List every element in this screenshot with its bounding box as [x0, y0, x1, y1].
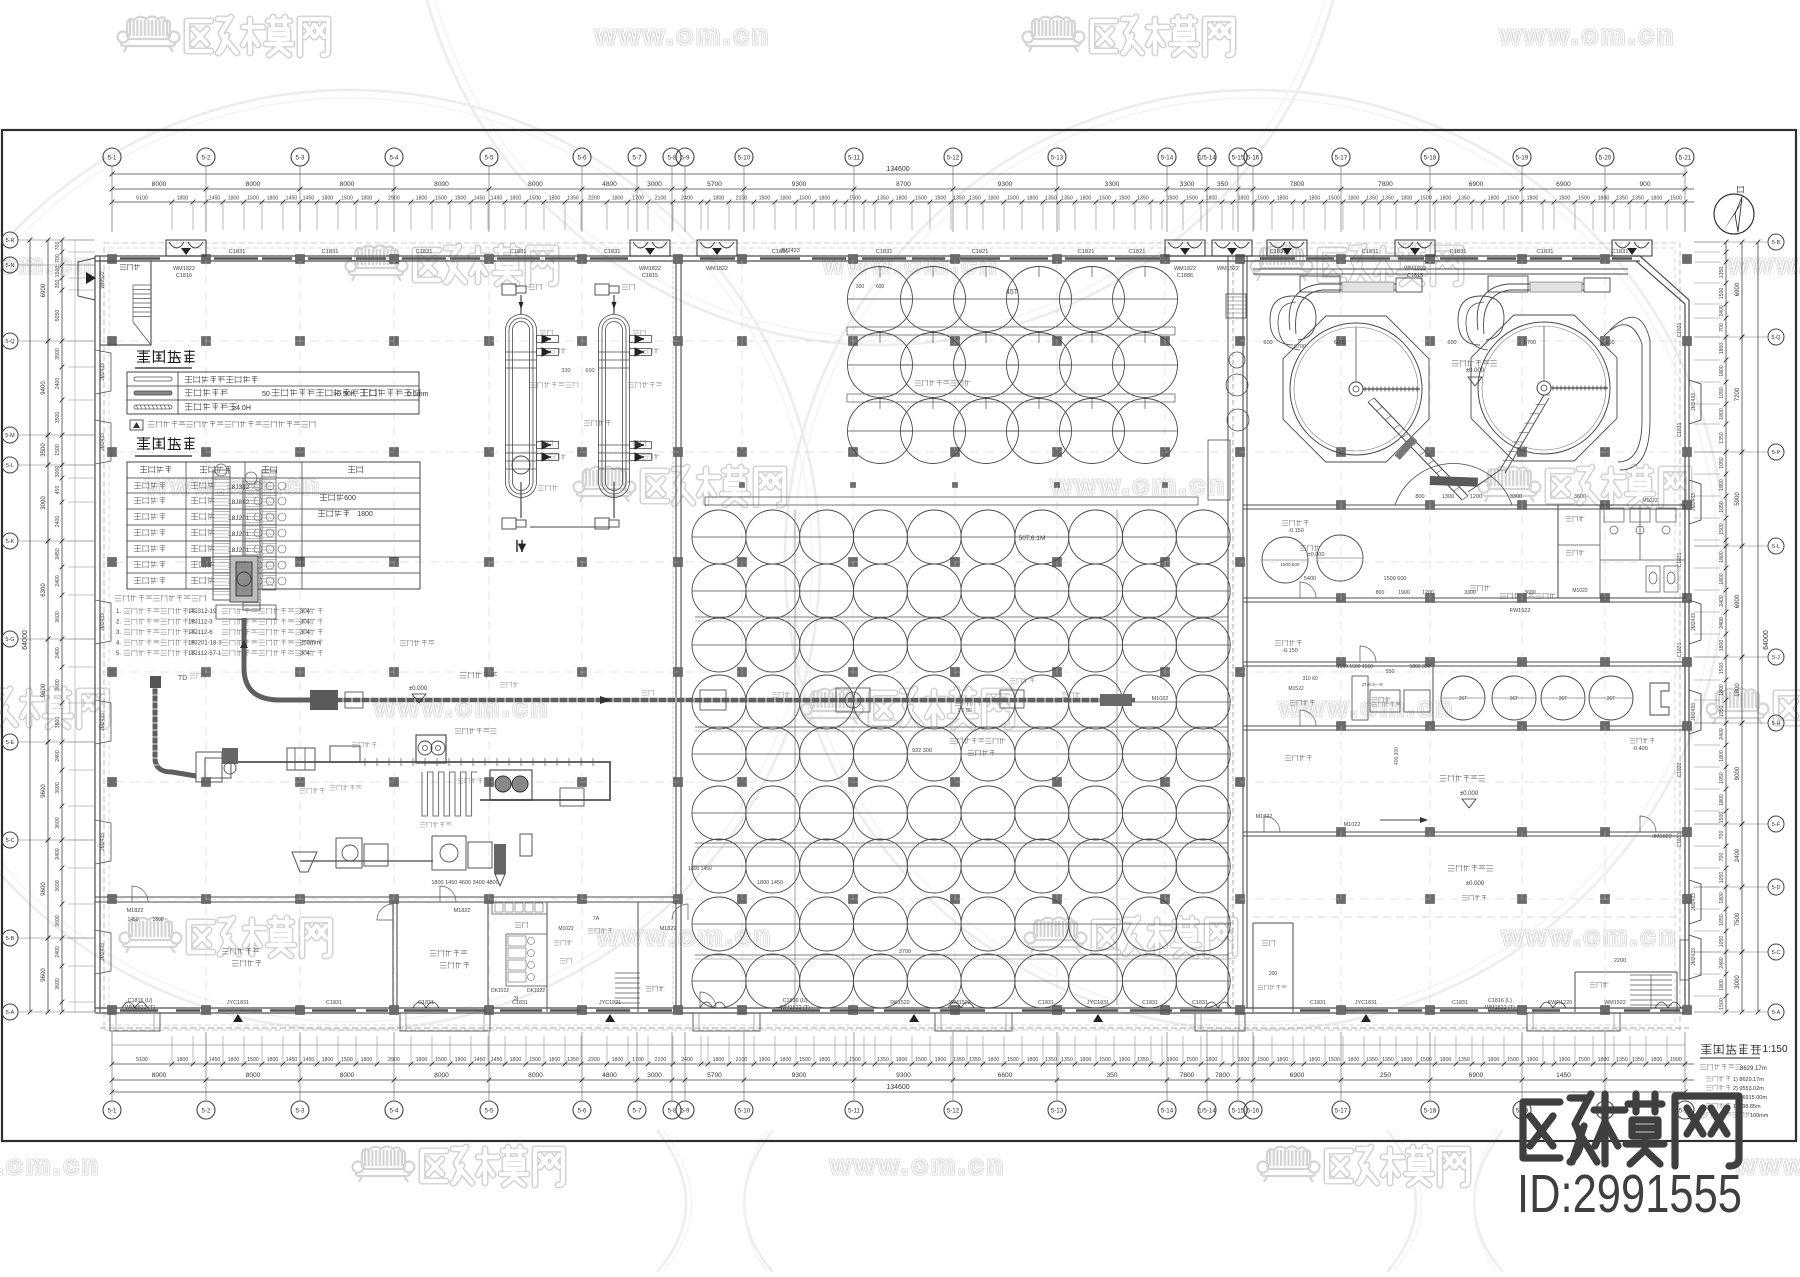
svg-text:JM2433: JM2433 — [1691, 493, 1697, 511]
svg-text:5-16: 5-16 — [1247, 155, 1260, 162]
svg-text:1800: 1800 — [1719, 794, 1725, 806]
watermark layer: om.cn sofa logo tiles — [0, 90, 820, 1030]
svg-text:1050: 1050 — [1719, 457, 1725, 469]
svg-text:1800: 1800 — [322, 1057, 334, 1063]
svg-text:9300: 9300 — [896, 1072, 911, 1079]
svg-text:1500: 1500 — [341, 196, 353, 202]
top wall windows and entrance doors — [120, 257, 160, 259]
svg-text:1500: 1500 — [1186, 196, 1198, 202]
svg-text:1050: 1050 — [1719, 772, 1725, 784]
svg-text:18J112-57-1: 18J112-57-1 — [188, 651, 222, 657]
svg-text:1800: 1800 — [1348, 1057, 1360, 1063]
svg-text:2400: 2400 — [55, 647, 61, 659]
svg-text:5-K: 5-K — [6, 539, 15, 545]
svg-text:1500: 1500 — [1507, 196, 1519, 202]
svg-text:3300: 3300 — [1180, 181, 1195, 188]
svg-text:1350: 1350 — [1458, 1057, 1470, 1063]
svg-text:5-11: 5-11 — [848, 155, 860, 162]
svg-text:600: 600 — [1605, 340, 1614, 346]
svg-text:5-F: 5-F — [1772, 822, 1781, 828]
svg-text:1800: 1800 — [819, 1057, 831, 1063]
svg-text:5-1: 5-1 — [108, 155, 118, 162]
svg-text:304: 304 — [300, 630, 311, 636]
svg-text:7200: 7200 — [1735, 387, 1741, 401]
svg-text:50: 50 — [262, 391, 270, 398]
svg-text:1800: 1800 — [322, 196, 334, 202]
svg-text:2100: 2100 — [736, 196, 748, 202]
svg-text:5-17: 5-17 — [1335, 155, 1348, 162]
svg-text:6900: 6900 — [1735, 282, 1741, 296]
svg-text:1800: 1800 — [361, 196, 373, 202]
sterilizer towers — [506, 314, 537, 497]
svg-text:5-B: 5-B — [6, 936, 15, 942]
svg-text:1800: 1800 — [228, 196, 240, 202]
svg-text:1450: 1450 — [474, 1057, 486, 1063]
wall legend and reference tables — [137, 350, 150, 363]
svg-text:5100: 5100 — [136, 1057, 148, 1063]
svg-text:1350: 1350 — [1061, 1057, 1073, 1063]
svg-text:64000: 64000 — [1763, 630, 1770, 650]
svg-text:5100: 5100 — [136, 196, 148, 202]
svg-text:1800: 1800 — [1719, 573, 1725, 585]
svg-text:1800: 1800 — [1598, 196, 1610, 202]
svg-text:1800: 1800 — [152, 917, 163, 923]
svg-text:3600: 3600 — [55, 611, 61, 623]
svg-text:1800: 1800 — [1719, 408, 1725, 420]
svg-text:300: 300 — [856, 284, 865, 290]
svg-text:6900: 6900 — [1735, 594, 1741, 608]
svg-text:1.: 1. — [116, 609, 121, 615]
svg-text:1500: 1500 — [915, 196, 927, 202]
svg-text:JYC1831: JYC1831 — [227, 1000, 249, 1006]
svg-text:50T,6.1M: 50T,6.1M — [1019, 535, 1046, 542]
svg-text:1) 8629.17m: 1) 8629.17m — [1733, 1077, 1764, 1083]
svg-text:2100: 2100 — [655, 196, 667, 202]
svg-text:18J312-19: 18J312-19 — [188, 609, 217, 615]
svg-text:600: 600 — [1447, 340, 1456, 346]
svg-text:1500: 1500 — [1257, 196, 1269, 202]
svg-text:5.: 5. — [116, 651, 121, 657]
stair 3 top-left — [100, 261, 151, 345]
svg-text:9600: 9600 — [41, 882, 47, 896]
svg-text:1350: 1350 — [1045, 196, 1057, 202]
svg-text:1800: 1800 — [759, 1057, 771, 1063]
svg-text:5-L: 5-L — [1772, 544, 1780, 550]
svg-text:18J201: 18J201 — [228, 547, 250, 554]
svg-text:6900: 6900 — [1469, 181, 1484, 188]
svg-text:304: 304 — [300, 651, 311, 657]
svg-text:18J201-18-3: 18J201-18-3 — [188, 641, 222, 647]
svg-text:134600: 134600 — [886, 1084, 909, 1091]
svg-text:5-Q: 5-Q — [1771, 335, 1781, 341]
svg-text:2900: 2900 — [388, 1057, 400, 1063]
svg-text:1800: 1800 — [1719, 479, 1725, 491]
svg-text:1800: 1800 — [1488, 1057, 1500, 1063]
svg-text:2400: 2400 — [1719, 595, 1725, 607]
50T tank grid — [692, 510, 746, 564]
svg-text:5-15: 5-15 — [1232, 1108, 1245, 1115]
svg-text:2400: 2400 — [55, 378, 61, 390]
svg-text:5-7: 5-7 — [633, 155, 643, 162]
svg-text:1350: 1350 — [1632, 1057, 1644, 1063]
svg-text:6700: 6700 — [1294, 344, 1306, 350]
svg-text:C1831: C1831 — [1677, 422, 1683, 437]
svg-text:1800: 1800 — [357, 511, 373, 518]
svg-text:2400: 2400 — [1719, 957, 1725, 969]
svg-text:JM2433: JM2433 — [100, 433, 106, 451]
structural column squares — [108, 255, 117, 264]
svg-text:1800: 1800 — [1348, 196, 1360, 202]
svg-text:1500: 1500 — [1507, 1057, 1519, 1063]
svg-text:1500: 1500 — [1099, 196, 1111, 202]
svg-text:1900: 1900 — [1398, 590, 1410, 596]
svg-text:8000: 8000 — [246, 1072, 261, 1079]
svg-text:1800: 1800 — [1027, 1057, 1039, 1063]
svg-text:8000: 8000 — [152, 181, 167, 188]
svg-text:1800: 1800 — [1440, 1057, 1452, 1063]
svg-text:1350: 1350 — [1632, 196, 1644, 202]
svg-text:5-17: 5-17 — [1335, 1108, 1348, 1115]
svg-text:M1022: M1022 — [1152, 696, 1169, 702]
svg-text:7800: 7800 — [1215, 1072, 1230, 1079]
svg-text:400,300: 400,300 — [1394, 747, 1400, 765]
svg-text:5-6: 5-6 — [578, 1108, 588, 1115]
svg-text:±0.000: ±0.000 — [1460, 791, 1479, 797]
svg-text:2400: 2400 — [1735, 848, 1741, 862]
svg-text:1500: 1500 — [1328, 196, 1340, 202]
svg-text:1800: 1800 — [935, 196, 947, 202]
svg-text:8000: 8000 — [246, 181, 261, 188]
svg-text:1350: 1350 — [1137, 196, 1149, 202]
svg-text:3000: 3000 — [55, 466, 61, 478]
svg-text:7500: 7500 — [1735, 912, 1741, 926]
svg-text:5-2: 5-2 — [202, 155, 212, 162]
svg-text:1500: 1500 — [529, 196, 541, 202]
svg-text:9300: 9300 — [792, 181, 807, 188]
svg-text:3300: 3300 — [1510, 494, 1522, 500]
svg-text:5-C: 5-C — [6, 838, 15, 844]
svg-text:1500: 1500 — [1670, 1057, 1682, 1063]
svg-text:8700: 8700 — [896, 181, 911, 188]
svg-text:C1831: C1831 — [418, 1000, 434, 1006]
svg-text:C1831: C1831 — [1611, 249, 1628, 255]
svg-text:18J112-6: 18J112-6 — [188, 630, 213, 636]
svg-text:JM2433: JM2433 — [100, 833, 106, 851]
svg-text:8000: 8000 — [528, 181, 543, 188]
svg-text:1800: 1800 — [896, 1057, 908, 1063]
svg-text:100mm: 100mm — [1750, 1113, 1769, 1119]
svg-text:1800: 1800 — [549, 1057, 561, 1063]
svg-text:1800: 1800 — [1080, 1057, 1092, 1063]
svg-text:1800: 1800 — [1527, 1057, 1539, 1063]
svg-text:2400: 2400 — [55, 848, 61, 860]
svg-text:5-12: 5-12 — [947, 1108, 960, 1115]
svg-text:C1831: C1831 — [875, 249, 892, 255]
svg-text:5-R: 5-R — [6, 238, 15, 244]
svg-text:800: 800 — [1376, 590, 1385, 596]
svg-text:1800: 1800 — [612, 1057, 624, 1063]
svg-text:C1831: C1831 — [1536, 249, 1553, 255]
svg-text:1450: 1450 — [209, 196, 221, 202]
svg-text:JM1822: JM1822 — [1652, 834, 1672, 840]
svg-text:1500: 1500 — [1719, 523, 1725, 535]
svg-text:DK1022: DK1022 — [491, 988, 509, 994]
svg-text:3500: 3500 — [41, 443, 47, 457]
svg-text:600: 600 — [876, 284, 885, 290]
svg-text:JM2433: JM2433 — [100, 943, 106, 961]
svg-text:±0.000: ±0.000 — [1466, 368, 1485, 374]
svg-text:3600: 3600 — [55, 782, 61, 794]
svg-text:1800: 1800 — [510, 196, 522, 202]
svg-text:1350: 1350 — [1719, 267, 1725, 279]
svg-text:330: 330 — [561, 368, 570, 374]
svg-text:JM2433: JM2433 — [100, 713, 106, 731]
svg-text:>0.50h,: >0.50h, — [333, 391, 357, 398]
svg-text:1800: 1800 — [1651, 1057, 1663, 1063]
svg-text:1800: 1800 — [935, 1057, 947, 1063]
svg-text:1500: 1500 — [1257, 1057, 1269, 1063]
svg-text:5-20: 5-20 — [1599, 155, 1612, 162]
svg-text:36T: 36T — [1510, 696, 1519, 702]
svg-text:2200: 2200 — [588, 1057, 600, 1063]
svg-text:134600: 134600 — [886, 166, 909, 173]
svg-text:C1831: C1831 — [1449, 249, 1466, 255]
svg-text:3300: 3300 — [1464, 590, 1476, 596]
svg-text:5-5: 5-5 — [485, 1108, 495, 1115]
svg-text:45T: 45T — [1006, 289, 1019, 296]
svg-text:1800: 1800 — [780, 1057, 792, 1063]
svg-text:1050: 1050 — [1719, 501, 1725, 513]
svg-text:1350: 1350 — [877, 196, 889, 202]
svg-text:6900: 6900 — [1469, 1072, 1484, 1079]
svg-text:±0.000: ±0.000 — [1466, 881, 1485, 887]
svg-text:1350: 1350 — [1616, 1057, 1628, 1063]
svg-text:3600: 3600 — [55, 717, 61, 729]
svg-text:1500: 1500 — [1186, 1057, 1198, 1063]
svg-text:5-1: 5-1 — [108, 1108, 118, 1115]
svg-text:1350: 1350 — [1061, 196, 1073, 202]
svg-text:5700: 5700 — [1524, 340, 1536, 346]
svg-text:6900: 6900 — [1556, 181, 1571, 188]
svg-text:350: 350 — [1217, 181, 1228, 188]
svg-text:1800: 1800 — [896, 196, 908, 202]
svg-text:5-12: 5-12 — [947, 155, 960, 162]
svg-text:C1831: C1831 — [603, 249, 620, 255]
svg-text:8629.17m: 8629.17m — [1740, 1066, 1767, 1072]
svg-text:C1831: C1831 — [1038, 1000, 1054, 1006]
svg-text:1800: 1800 — [1027, 196, 1039, 202]
svg-text:C1815: C1815 — [642, 273, 658, 279]
svg-text:5050: 5050 — [55, 310, 61, 322]
svg-text:5-14: 5-14 — [1161, 1108, 1174, 1115]
svg-text:7A: 7A — [593, 916, 600, 922]
svg-text:5-L: 5-L — [6, 463, 14, 469]
svg-text:1800: 1800 — [612, 196, 624, 202]
svg-text:1800: 1800 — [988, 196, 1000, 202]
svg-text:5-9: 5-9 — [681, 1108, 691, 1115]
svg-text:3450: 3450 — [55, 548, 61, 560]
svg-text:JM2433: JM2433 — [1691, 703, 1697, 721]
svg-text:1500: 1500 — [799, 1057, 811, 1063]
svg-text:3]: 3] — [514, 996, 519, 1002]
svg-text:3.: 3. — [116, 630, 121, 636]
svg-text:5-3: 5-3 — [296, 155, 306, 162]
svg-text:1800: 1800 — [1206, 196, 1218, 202]
svg-text:1350: 1350 — [1382, 196, 1394, 202]
svg-text:5-Q: 5-Q — [5, 339, 15, 345]
svg-text:2) 9553.02m: 2) 9553.02m — [1733, 1086, 1764, 1092]
svg-text:C1831: C1831 — [1677, 832, 1683, 847]
svg-text:1800: 1800 — [267, 1057, 279, 1063]
svg-text:M1522: M1522 — [1288, 686, 1304, 692]
svg-text:8000: 8000 — [434, 1072, 449, 1079]
svg-text:1800: 1800 — [1206, 1057, 1218, 1063]
svg-text:1800: 1800 — [1559, 196, 1571, 202]
svg-text:1800: 1800 — [1401, 196, 1413, 202]
svg-text:1500: 1500 — [799, 196, 811, 202]
svg-text:5-N: 5-N — [6, 263, 15, 269]
svg-text:C1886: C1886 — [1177, 273, 1193, 279]
svg-text:C1831: C1831 — [1452, 1000, 1468, 1006]
svg-text:2100: 2100 — [736, 1057, 748, 1063]
svg-text:1350: 1350 — [1382, 1057, 1394, 1063]
svg-text:1800: 1800 — [1527, 196, 1539, 202]
production line equipment — [312, 698, 1135, 703]
svg-text:1350: 1350 — [953, 196, 965, 202]
svg-text:1800: 1800 — [988, 1057, 1000, 1063]
svg-text:1350: 1350 — [1366, 1057, 1378, 1063]
svg-text:5-18: 5-18 — [1424, 155, 1437, 162]
svg-text:9300: 9300 — [792, 1072, 807, 1079]
svg-text:1800: 1800 — [1719, 979, 1725, 991]
svg-text:5-M: 5-M — [5, 433, 15, 439]
svg-text:1350: 1350 — [567, 1057, 579, 1063]
svg-text:1/5-14: 1/5-14 — [1198, 155, 1216, 162]
svg-text:1800: 1800 — [1559, 1057, 1571, 1063]
svg-text:ID:2991555: ID:2991555 — [1517, 1164, 1742, 1224]
svg-text:3300: 3300 — [1105, 181, 1120, 188]
svg-text:3600: 3600 — [55, 915, 61, 927]
svg-text:C1831: C1831 — [1677, 762, 1683, 777]
svg-text:2400: 2400 — [681, 1057, 693, 1063]
svg-text:2400: 2400 — [1719, 728, 1725, 740]
45T tank grid — [848, 267, 913, 332]
svg-text:1800: 1800 — [455, 196, 467, 202]
svg-text:1800: 1800 — [416, 196, 428, 202]
svg-text:1.6 ΒΕ: 1.6 ΒΕ — [957, 708, 973, 714]
svg-text:600: 600 — [585, 368, 594, 374]
svg-text:8000: 8000 — [340, 1072, 355, 1079]
svg-text:1450: 1450 — [286, 196, 298, 202]
svg-text:WM1822 (T): WM1822 (T) — [125, 1005, 155, 1011]
svg-text:1800: 1800 — [1119, 1057, 1131, 1063]
svg-text:700: 700 — [1719, 853, 1725, 862]
svg-text:±0.000: ±0.000 — [1308, 552, 1325, 558]
svg-text:1800 1450: 1800 1450 — [688, 866, 712, 872]
svg-text:1800: 1800 — [780, 196, 792, 202]
svg-text:6900: 6900 — [1290, 1072, 1305, 1079]
svg-text:18J201: 18J201 — [228, 515, 250, 522]
column grid bubbles and dimension chains — [103, 148, 121, 166]
svg-text:5-11: 5-11 — [848, 1108, 860, 1115]
svg-text:2900: 2900 — [388, 196, 400, 202]
svg-text:3700: 3700 — [899, 949, 911, 955]
svg-text:C1831: C1831 — [228, 249, 245, 255]
svg-text:1050: 1050 — [1719, 936, 1725, 948]
clarifier tanks — [1283, 316, 1429, 462]
svg-text:1350: 1350 — [1719, 432, 1725, 444]
svg-text:2T/0.5—9: 2T/0.5—9 — [1361, 682, 1382, 688]
svg-text:1050: 1050 — [1719, 706, 1725, 718]
svg-text:8000: 8000 — [152, 1072, 167, 1079]
svg-text:1350: 1350 — [969, 1057, 981, 1063]
svg-text:600: 600 — [1263, 340, 1272, 346]
svg-text:1050: 1050 — [1719, 872, 1725, 884]
svg-text:250: 250 — [1380, 1072, 1391, 1079]
svg-text:1800: 1800 — [416, 1057, 428, 1063]
svg-text:1800: 1800 — [228, 1057, 240, 1063]
svg-text:1050: 1050 — [1719, 387, 1725, 399]
svg-text:36T: 36T — [1459, 696, 1468, 702]
svg-text:1500: 1500 — [1328, 1057, 1340, 1063]
title block — [1701, 1044, 1712, 1055]
svg-text:WM1822 (T): WM1822 (T) — [1485, 1005, 1515, 1011]
svg-text:6600: 6600 — [998, 1072, 1013, 1079]
svg-text:1450: 1450 — [474, 196, 486, 202]
svg-text:WM1822 (T): WM1822 (T) — [780, 1005, 810, 1011]
svg-text:JM2433: JM2433 — [100, 363, 106, 381]
svg-text:C1816 (L): C1816 (L) — [1488, 998, 1512, 1004]
svg-text:1350: 1350 — [1045, 1057, 1057, 1063]
svg-text:8000: 8000 — [528, 1072, 543, 1079]
svg-text:1450: 1450 — [286, 1057, 298, 1063]
svg-text:C1821: C1821 — [1128, 249, 1145, 255]
svg-text:1800: 1800 — [177, 1057, 189, 1063]
page border frame — [2, 130, 1796, 1141]
svg-text:5-7: 5-7 — [633, 1108, 643, 1115]
svg-text:1800: 1800 — [510, 1057, 522, 1063]
svg-text:-0.150: -0.150 — [1282, 648, 1298, 654]
svg-text:5-B: 5-B — [1772, 240, 1781, 246]
svg-text:M1822: M1822 — [454, 908, 471, 914]
svg-text:1500: 1500 — [849, 1057, 861, 1063]
svg-text:3600: 3600 — [55, 978, 61, 990]
svg-text:5-13: 5-13 — [1051, 155, 1064, 162]
svg-text:C1816: C1816 — [176, 273, 192, 279]
svg-text:C1831: C1831 — [1192, 1000, 1208, 1006]
svg-text:JYC1831: JYC1831 — [1087, 1000, 1109, 1006]
svg-text:18J112-3: 18J112-3 — [188, 620, 213, 626]
svg-text:1500: 1500 — [529, 1057, 541, 1063]
svg-text:3600: 3600 — [55, 817, 61, 829]
svg-text:C1831: C1831 — [1310, 1000, 1326, 1006]
svg-text:JYC1831: JYC1831 — [1355, 1000, 1377, 1006]
svg-text:1350: 1350 — [953, 1057, 965, 1063]
svg-text:5-4: 5-4 — [390, 1108, 400, 1115]
svg-text:1550 1500 1550: 1550 1500 1550 — [1337, 664, 1373, 670]
bottom rooms and bathroom — [222, 949, 229, 955]
svg-text:1350: 1350 — [1616, 196, 1628, 202]
svg-text:1:150: 1:150 — [1762, 1044, 1787, 1055]
svg-text:WM1522: WM1522 — [1217, 266, 1239, 272]
svg-text:1500,600: 1500,600 — [1280, 562, 1300, 567]
svg-text:1500: 1500 — [849, 196, 861, 202]
svg-text:1500: 1500 — [1007, 196, 1019, 202]
svg-text:1800: 1800 — [1277, 1057, 1289, 1063]
svg-text:DK1022: DK1022 — [527, 988, 545, 994]
svg-text:5-A: 5-A — [1772, 1010, 1781, 1016]
svg-text:700: 700 — [1719, 323, 1725, 332]
